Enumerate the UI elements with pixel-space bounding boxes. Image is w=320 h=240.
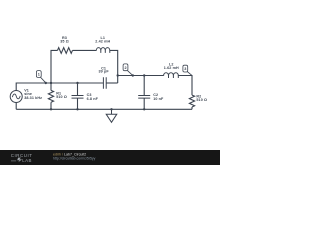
wire C3 top stub <box>77 83 79 95</box>
ground <box>106 109 117 122</box>
capacitor C2 <box>138 96 150 99</box>
wire C1 right plate <box>106 82 118 84</box>
node 2 <box>123 64 133 75</box>
inductor L1 <box>96 48 110 53</box>
wire R3 to L1 <box>73 49 97 51</box>
wire C1 left plate to node <box>51 82 103 84</box>
svg-text:1.62 mH: 1.62 mH <box>164 66 179 70</box>
junction dots <box>45 74 146 110</box>
resistor R3 <box>58 48 73 54</box>
svg-text:2: 2 <box>124 66 126 70</box>
svg-text:10 nF: 10 nF <box>153 97 164 101</box>
svg-text:39 pF: 39 pF <box>98 70 109 74</box>
wire C3 bottom stub <box>77 98 79 109</box>
wire C2 top stub <box>143 76 145 96</box>
wire bottom rail <box>16 108 192 110</box>
label R2 value <box>196 94 207 102</box>
wire C2 bottom stub <box>143 98 145 109</box>
svg-text:6.8 nF: 6.8 nF <box>87 97 99 101</box>
wire V1 top to node <box>16 83 51 91</box>
svg-text:35 Ω: 35 Ω <box>60 40 69 44</box>
footer CircuitLab logo <box>11 153 33 163</box>
label L2 value <box>164 62 179 70</box>
label V1 value <box>24 89 42 100</box>
resistor R2 <box>189 95 194 107</box>
svg-text:1: 1 <box>38 73 40 77</box>
inductor L2 <box>164 73 179 78</box>
label C3 value <box>87 93 99 101</box>
label L1 value <box>95 36 110 44</box>
wire L1 to right leg down to C1 level <box>110 50 118 83</box>
svg-text:http://circuitlab.com/c/5r5yy: http://circuitlab.com/c/5r5yy <box>53 157 96 161</box>
svg-text:LAB: LAB <box>22 158 32 163</box>
capacitor C3 <box>72 96 84 99</box>
wire R2 bottom stub <box>191 107 193 109</box>
voltage source V1 <box>10 91 22 103</box>
node 3 <box>183 65 192 75</box>
svg-text:510 Ω: 510 Ω <box>56 95 67 99</box>
svg-text:3: 3 <box>184 67 186 71</box>
svg-text:2.42 mH: 2.42 mH <box>95 40 110 44</box>
wire V1 bottom <box>15 102 17 109</box>
node 1 <box>36 71 45 83</box>
svg-text:38.31 kHz: 38.31 kHz <box>24 96 42 100</box>
capacitor C1 <box>103 77 106 88</box>
wire L2 to R2 corner <box>178 76 192 96</box>
wire resistor R1 top stub <box>50 83 52 90</box>
wire right rail from junction <box>118 75 164 77</box>
wire left vertical to top loop <box>51 50 58 83</box>
svg-text:510 Ω: 510 Ω <box>196 98 207 102</box>
wire R1 bottom stub <box>50 102 52 109</box>
footer bar <box>0 150 220 165</box>
footer text <box>53 153 96 161</box>
label R1 value <box>56 91 67 99</box>
label C2 value <box>153 93 164 101</box>
label R3 value <box>60 36 69 43</box>
resistor R1 <box>48 90 53 102</box>
label C1 value <box>98 66 109 73</box>
